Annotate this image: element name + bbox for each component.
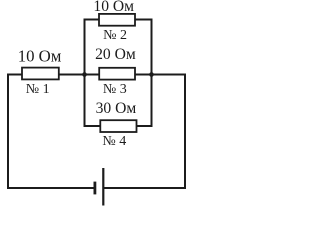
wire right stub to outer <box>151 74 187 76</box>
wire R1 to left bus <box>59 74 86 76</box>
wire top branch left <box>84 19 100 21</box>
resistor R3 box <box>99 68 135 80</box>
node junction right <box>149 72 154 77</box>
wire middle branch right <box>134 74 153 76</box>
battery long plate <box>102 168 104 206</box>
node junction left <box>82 72 87 77</box>
wire bottom right segment <box>103 187 186 189</box>
wire left branch to R1 <box>7 74 23 76</box>
wire middle branch left <box>84 74 100 76</box>
wire left bus vertical <box>84 19 86 128</box>
wire bottom branch left <box>84 125 102 127</box>
wire left outer vertical <box>7 74 9 190</box>
wire bottom branch right <box>136 125 153 127</box>
svg-text:№ 3: № 3 <box>103 82 127 97</box>
battery short plate <box>94 182 97 195</box>
wire bottom left segment <box>7 187 95 189</box>
svg-text:№ 1: № 1 <box>26 82 50 97</box>
wire right bus vertical <box>151 19 153 128</box>
svg-text:20 Ом: 20 Ом <box>95 46 136 63</box>
svg-text:10 Ом: 10 Ом <box>18 46 62 65</box>
resistor R1 box <box>22 68 59 80</box>
resistor R2 box <box>99 14 135 26</box>
wire top branch right <box>135 19 153 21</box>
svg-text:30 Ом: 30 Ом <box>96 100 137 117</box>
wire right outer vertical <box>184 74 186 190</box>
svg-text:№ 2: № 2 <box>103 28 127 43</box>
svg-text:№ 4: № 4 <box>102 134 126 149</box>
svg-text:10 Ом: 10 Ом <box>93 0 134 15</box>
resistor R4 box <box>100 120 136 132</box>
